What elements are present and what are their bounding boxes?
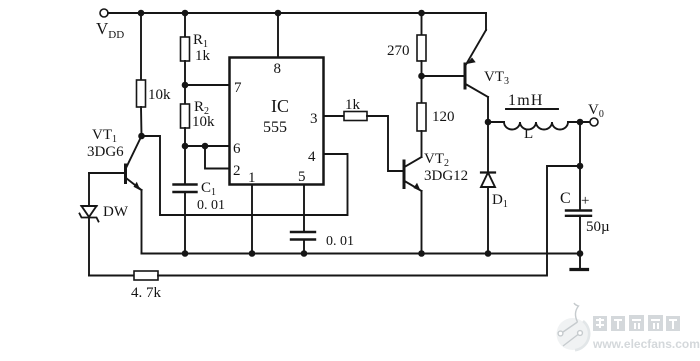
node: output junction (577, 119, 584, 126)
node: VT3 base junction (418, 73, 425, 80)
watermark text (592, 315, 700, 351)
wire: capacitor C to ground rail (579, 216, 581, 254)
wire: output node down to capacitor C (579, 122, 581, 211)
resistor R2 10k (181, 99, 216, 130)
resistor 10k (left) (137, 80, 172, 107)
wire: top VDD rail (108, 12, 486, 14)
svg-text:3: 3 (310, 111, 318, 127)
svg-text:10k: 10k (148, 87, 171, 103)
svg-text:4. 7k: 4. 7k (131, 285, 162, 301)
capacitor C 50u (560, 190, 610, 235)
svg-text:1k: 1k (345, 97, 361, 113)
wire: pin 2 stub (205, 146, 230, 169)
svg-text:3DG6: 3DG6 (87, 144, 124, 160)
svg-text:L: L (524, 126, 533, 142)
transistor VT1 3DG6 (87, 127, 142, 191)
node: junction pin2 stub (202, 143, 209, 150)
node: VT1 collector junction (138, 133, 145, 140)
wire: pin 5 to 0.01 cap (303, 185, 305, 233)
wire: DW to feedback line (88, 218, 90, 276)
svg-text:C1: C1 (201, 180, 216, 198)
svg-text:5: 5 (298, 169, 306, 185)
diode D1 (481, 122, 508, 254)
svg-text:0. 01: 0. 01 (197, 198, 225, 213)
wire: VT3 base (422, 75, 464, 77)
wire: R1 to pin7 node (184, 61, 186, 104)
resistor 270 (387, 35, 426, 61)
node: ground junction C (577, 250, 584, 257)
wire: base column down to zener (88, 173, 90, 206)
svg-text:10k: 10k (192, 114, 215, 130)
resistor 4.7k (131, 271, 162, 301)
wire: VT2 emitter to ground rail (421, 191, 423, 254)
node: rail junction at pin 8 (275, 10, 282, 17)
svg-text:3DG12: 3DG12 (424, 168, 468, 184)
svg-text:1k: 1k (195, 48, 211, 64)
svg-text:8: 8 (274, 61, 282, 77)
node: junction R2/C1/pin6 (182, 143, 189, 150)
wire: node to 120 (421, 76, 423, 103)
svg-text:120: 120 (432, 109, 455, 125)
svg-text:1mH: 1mH (508, 92, 544, 109)
svg-text:2: 2 (233, 163, 241, 179)
node: VT3/L/D1 junction (485, 119, 492, 126)
wire: VT3 collector down to node (487, 97, 489, 122)
svg-text:IC: IC (271, 96, 289, 116)
svg-text:C: C (560, 190, 571, 207)
wire: pin 6 (185, 145, 230, 147)
watermark logo (557, 303, 590, 350)
wire: 270 to VT3 base node (421, 61, 423, 76)
node: rail junction at 270 (418, 10, 425, 17)
node: ground junction pin1 (249, 250, 256, 257)
node: feedback tap junction (577, 163, 584, 170)
svg-text:D1: D1 (492, 192, 508, 210)
svg-text:7: 7 (234, 80, 242, 96)
node: ground junction VT2 emitter (418, 250, 425, 257)
wire: 10k to VT1 collector node (140, 107, 143, 136)
transistor VT2 3DG12 (404, 151, 468, 191)
wire: node to C1 top (184, 146, 186, 184)
wire: 120 to VT2 collector (421, 131, 423, 157)
node: ground junction 0.01 (301, 250, 308, 257)
wire: rail to 10k resistor (140, 13, 142, 80)
VDD terminal (96, 9, 124, 41)
wire: VT1 base to DW (89, 172, 126, 174)
svg-text:4: 4 (308, 149, 316, 165)
svg-text:www.elecfans.com: www.elecfans.com (592, 337, 700, 351)
resistor 1k (pin3) (344, 97, 367, 121)
node: rail junction at 10k (138, 10, 145, 17)
wire: ground rail (142, 253, 581, 255)
wire: rail to R1 (184, 13, 186, 37)
IC 555 box U1 (230, 58, 324, 187)
wire: node to inductor (488, 121, 504, 123)
svg-text:+: + (581, 193, 589, 209)
wire: 0.01 cap to ground rail (303, 240, 305, 254)
inductor L 1mH (504, 92, 568, 142)
wire: 1k to VT2 base (367, 116, 403, 171)
svg-text:VT3: VT3 (484, 69, 509, 87)
svg-text:0. 01: 0. 01 (326, 234, 354, 249)
svg-text:270: 270 (387, 43, 410, 59)
zener diode DW (80, 204, 129, 222)
svg-text:DW: DW (103, 204, 129, 220)
wire: pin 8 to rail (277, 13, 279, 58)
ground (571, 254, 588, 270)
svg-text:VT2: VT2 (424, 151, 449, 169)
node: ground junction C1 (182, 250, 189, 257)
wire: VT1 emitter to ground rail (141, 190, 143, 254)
svg-text:6: 6 (233, 141, 241, 157)
wire: feedback line left segment (89, 275, 134, 277)
node: junction R1/R2/pin7 (182, 82, 189, 89)
resistor 120 (417, 103, 455, 131)
svg-text:V0: V0 (588, 102, 604, 120)
wire: pin 7 (185, 84, 230, 86)
capacitor C1 0.01 (174, 180, 226, 213)
wire: inductor to output terminal (568, 121, 590, 123)
svg-text:555: 555 (263, 119, 287, 136)
wire: pin 1 to ground rail (251, 185, 253, 254)
svg-text:VDD: VDD (96, 19, 124, 41)
capacitor 0.01 (pin 5) (291, 232, 354, 249)
wire: rail to 270 (421, 13, 423, 35)
wire: R2 to pin 6 node (184, 128, 186, 146)
wire: pin 4 to VT1 collector node (142, 136, 348, 215)
svg-text:50µ: 50µ (586, 219, 610, 235)
transistor VT3 (465, 13, 509, 97)
wire: pin 3 to 1k (324, 115, 345, 117)
wire: feedback line to output node (158, 166, 580, 276)
svg-text:VT1: VT1 (92, 127, 117, 145)
node: rail junction at R1 (182, 10, 189, 17)
terminal V0 (588, 102, 604, 126)
node: ground junction D1 (485, 250, 492, 257)
resistor R1 1k (181, 32, 211, 64)
wire: C1 to ground rail (184, 192, 186, 254)
